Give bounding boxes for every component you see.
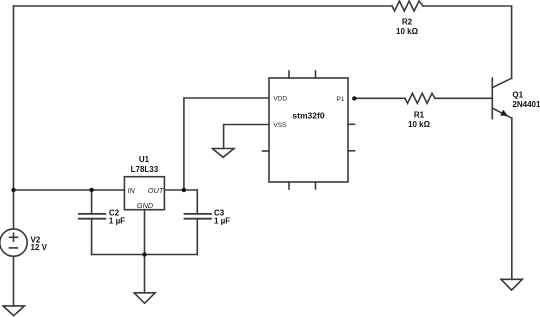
svg-text:GND: GND bbox=[137, 201, 154, 210]
junction node (GND / bottom rail) bbox=[142, 252, 146, 256]
wire VDD (riser to chip) bbox=[184, 98, 269, 190]
wire base (P1 to R1) bbox=[354, 97, 406, 99]
wire emitter down to ground bbox=[511, 118, 513, 279]
capacitor C3 bbox=[185, 190, 212, 255]
wire VSS to ground bbox=[224, 125, 269, 149]
wire GND pin down to ground bbox=[144, 210, 146, 293]
svg-text:OUT: OUT bbox=[148, 186, 164, 195]
wire R1 to base bbox=[435, 97, 492, 99]
svg-text:1 µF: 1 µF bbox=[214, 217, 230, 226]
svg-text:12 V: 12 V bbox=[31, 243, 48, 252]
ground (V2) bbox=[3, 306, 25, 316]
IC pin right stub 2 bbox=[348, 150, 355, 152]
svg-text:IN: IN bbox=[128, 186, 136, 195]
transistor Q1 body bbox=[492, 78, 512, 119]
IC pin bottom 1 bbox=[288, 182, 290, 189]
resistor R1 bbox=[405, 93, 435, 103]
wire left rail (top corner down to V2) bbox=[13, 6, 15, 229]
ground (regulator) bbox=[134, 293, 155, 304]
svg-text:1 µF: 1 µF bbox=[109, 217, 125, 226]
junction node (VDD riser / OUT wire) bbox=[182, 188, 186, 192]
ground (VSS) bbox=[212, 149, 234, 158]
regulator U1 body bbox=[124, 177, 164, 210]
IC pin top 1 bbox=[288, 71, 290, 78]
svg-text:VSS: VSS bbox=[273, 122, 287, 129]
svg-text:Q1: Q1 bbox=[512, 90, 523, 99]
resistor R2 bbox=[392, 1, 423, 11]
svg-text:10 kΩ: 10 kΩ bbox=[408, 120, 431, 129]
source V2 bbox=[0, 229, 27, 256]
svg-text:R2: R2 bbox=[402, 18, 413, 27]
wire V2 to ground bbox=[13, 256, 15, 306]
svg-text:10 kΩ: 10 kΩ bbox=[396, 27, 419, 36]
svg-text:2N4401: 2N4401 bbox=[512, 100, 540, 109]
junction node (C2 / IN wire) bbox=[89, 188, 93, 192]
wire top horizontal right (R2 to collector corner) bbox=[423, 6, 512, 78]
svg-text:R1: R1 bbox=[414, 110, 425, 119]
svg-text:stm32f0: stm32f0 bbox=[292, 110, 324, 120]
svg-text:VDD: VDD bbox=[273, 96, 287, 103]
ground (emitter) bbox=[501, 279, 522, 290]
junction node (rail / IN) bbox=[11, 188, 15, 192]
wire OUT (regulator to C3) bbox=[164, 189, 197, 191]
svg-text:L78L33: L78L33 bbox=[131, 165, 159, 174]
capacitor C2 bbox=[79, 190, 106, 255]
wire top horizontal left (V+ rail to R2) bbox=[14, 5, 393, 7]
svg-text:U1: U1 bbox=[139, 155, 150, 164]
IC pin bottom 2 bbox=[315, 182, 317, 189]
svg-text:P1: P1 bbox=[337, 96, 345, 103]
IC pin top 2 bbox=[315, 71, 317, 78]
IC stm32f0 body bbox=[269, 78, 348, 182]
junction node (P1 pin) bbox=[352, 96, 356, 100]
wire IN (left rail to regulator) bbox=[14, 189, 125, 191]
IC pin left stub bbox=[263, 150, 270, 152]
IC pin right stub 1 bbox=[348, 123, 355, 125]
wire bottom rail (C2 to C3) bbox=[92, 254, 198, 256]
